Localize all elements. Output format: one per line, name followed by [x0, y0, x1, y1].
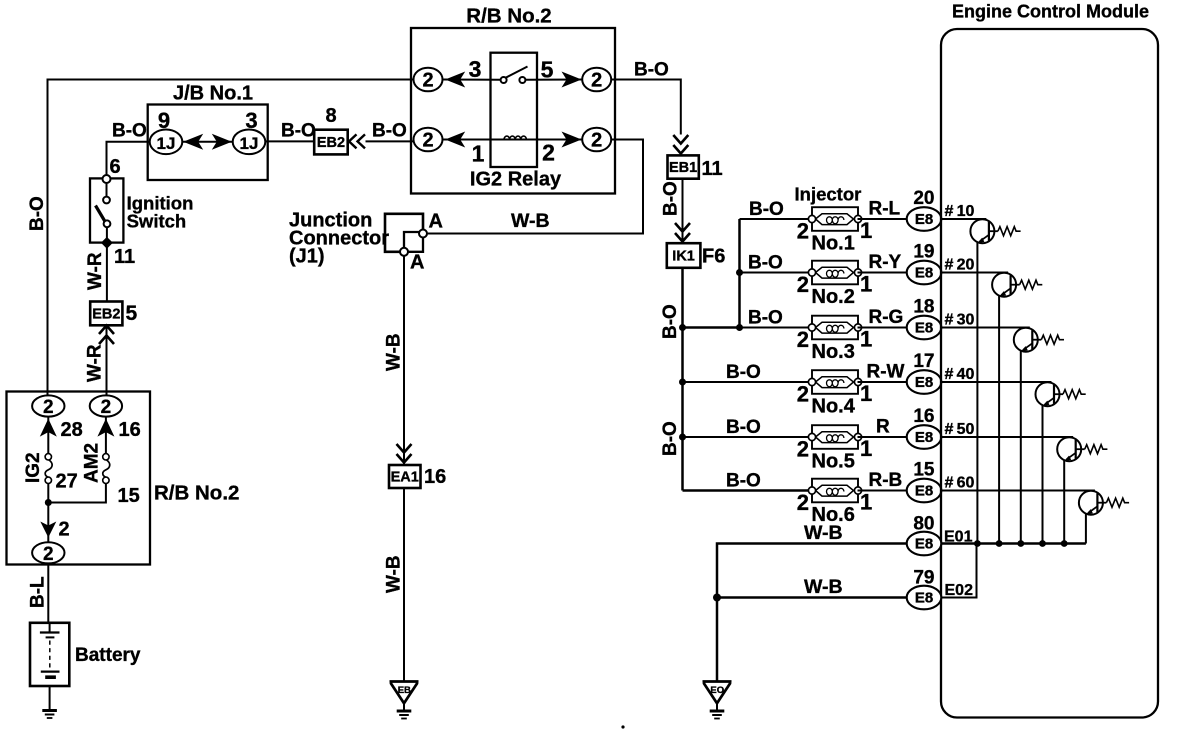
transistor Q6 — [1079, 491, 1129, 516]
svg-text:3: 3 — [469, 56, 482, 82]
svg-text:11: 11 — [114, 246, 135, 268]
arrow chevrons down — [675, 223, 690, 242]
svg-text:2: 2 — [797, 272, 809, 297]
svg-text:15: 15 — [913, 460, 935, 481]
battery — [30, 623, 69, 686]
svg-text:2: 2 — [59, 519, 70, 541]
svg-text:28: 28 — [61, 419, 83, 441]
node dot Q2 — [996, 540, 1003, 547]
node dot row4 main — [679, 379, 686, 386]
wire row6 B-O — [683, 489, 813, 492]
svg-text:R-G: R-G — [869, 307, 904, 328]
node dot Q4 — [1039, 540, 1046, 547]
svg-text:B-O: B-O — [726, 471, 761, 492]
svg-text:EA1: EA1 — [391, 470, 419, 486]
svg-text:2: 2 — [101, 397, 112, 418]
svg-text:Battery: Battery — [75, 645, 141, 666]
svg-text:2: 2 — [43, 544, 54, 565]
node dot Q1/E02 — [974, 540, 981, 547]
wire Q1 collector — [976, 242, 978, 544]
transistor Q5 — [1057, 437, 1107, 462]
svg-text:R-W: R-W — [867, 362, 905, 383]
wire B-L from R/B No.2 to battery — [47, 563, 49, 623]
wire row3 B-O — [740, 327, 813, 329]
svg-text:B-O: B-O — [660, 421, 681, 456]
svg-text:17: 17 — [913, 351, 934, 372]
ground point EO — [703, 682, 732, 719]
wire pin3 to contact — [443, 79, 502, 81]
connector 2 (pin 28) — [32, 395, 64, 416]
connector E8 pin 79 — [907, 586, 942, 610]
svg-text:E02: E02 — [945, 582, 974, 599]
svg-text:B-O: B-O — [726, 417, 761, 438]
arrow left (pin 3) — [445, 72, 465, 88]
wire B-O main feed (top left) — [48, 80, 414, 396]
injector No.6 — [808, 479, 861, 503]
wire Q4 collector — [1042, 405, 1044, 544]
wire fuse AM2 to node — [48, 484, 106, 503]
svg-text:R-B: R-B — [869, 470, 903, 491]
svg-text:# 40: # 40 — [945, 366, 975, 383]
wire J/B No.1 to ignition switch — [107, 142, 151, 176]
svg-text:27: 27 — [56, 471, 78, 493]
svg-text:W-R: W-R — [85, 252, 106, 290]
connector E8 pin 19 — [907, 261, 942, 285]
ground point EB — [390, 682, 419, 719]
svg-text:11: 11 — [702, 158, 723, 180]
svg-text:15: 15 — [118, 485, 140, 507]
svg-text:IG2 Relay: IG2 Relay — [470, 169, 562, 191]
svg-text:EB1: EB1 — [669, 160, 697, 176]
connector 2 (relay pin 2) — [582, 128, 611, 152]
arrow down (pin 2) — [40, 522, 56, 538]
connector E8 pin 18 — [907, 316, 942, 340]
wire Q5 collector — [1063, 460, 1065, 544]
node dot row2 branch — [736, 269, 743, 276]
wire W-B relay pin2 to junction connector — [428, 140, 644, 234]
svg-text:2: 2 — [422, 70, 433, 92]
wire row6 R-B — [858, 490, 907, 492]
wire battery to ground — [49, 686, 51, 710]
svg-text:2: 2 — [797, 327, 809, 352]
svg-text:1: 1 — [860, 272, 872, 297]
svg-text:A: A — [410, 252, 424, 274]
svg-text:W-B: W-B — [511, 210, 550, 232]
svg-text:Injector: Injector — [795, 184, 862, 205]
svg-text:2: 2 — [422, 130, 433, 152]
wire between 1J connectors — [183, 141, 233, 143]
connector 2 (relay pin 3) — [414, 68, 443, 92]
junction connector J1 — [385, 214, 423, 252]
svg-text:2: 2 — [542, 140, 555, 166]
connector 1J (pin 9) — [150, 130, 183, 155]
junction code EA1 — [389, 465, 421, 488]
injector No.2 — [808, 261, 861, 285]
wire E01 ground bus — [941, 542, 1086, 544]
wire W-B junction connector to EA1 — [403, 256, 405, 465]
injector No.3 — [808, 316, 861, 340]
svg-text:EB: EB — [398, 685, 411, 696]
wire row5 R — [858, 436, 907, 438]
svg-text:No.2: No.2 — [812, 286, 855, 308]
svg-text:B-O: B-O — [372, 121, 407, 142]
svg-text:19: 19 — [913, 242, 934, 263]
transistor Q1 — [970, 219, 1020, 244]
arrow chevrons left — [349, 134, 365, 148]
transistor Q3 — [1014, 328, 1064, 353]
svg-text:1: 1 — [860, 327, 872, 352]
svg-text:# 10: # 10 — [945, 203, 975, 220]
svg-text:# 50: # 50 — [945, 421, 975, 438]
svg-text:1: 1 — [860, 436, 872, 461]
wire EA1 to ground — [403, 488, 405, 682]
svg-text:16: 16 — [913, 406, 934, 427]
svg-text:R-L: R-L — [869, 199, 901, 220]
svg-text:R/B No.2: R/B No.2 — [466, 5, 551, 28]
arrow up (pin 16) — [97, 419, 114, 437]
connector E8 pin 20 — [907, 207, 942, 231]
svg-text:1: 1 — [860, 218, 872, 243]
svg-text:# 60: # 60 — [945, 475, 975, 492]
svg-text:6: 6 — [110, 156, 121, 178]
svg-text:# 20: # 20 — [945, 257, 975, 274]
wire Q3 collector — [1020, 351, 1022, 544]
svg-text:R: R — [876, 417, 890, 438]
svg-text:E01: E01 — [944, 529, 973, 546]
svg-text:5: 5 — [126, 302, 138, 325]
svg-text:EB2: EB2 — [317, 135, 345, 151]
svg-text:IK1: IK1 — [672, 249, 695, 265]
ignition switch SW1 — [90, 178, 123, 242]
node dot row3 main — [679, 324, 686, 331]
svg-text:J/B No.1: J/B No.1 — [173, 83, 253, 105]
svg-text:W-B: W-B — [384, 555, 405, 593]
svg-text:AM2: AM2 — [82, 443, 103, 483]
svg-text:2: 2 — [591, 130, 602, 152]
wire row5 B-O — [683, 436, 813, 438]
wire branch vertical to rows 1-2 — [738, 219, 741, 328]
node dot row3 branch — [736, 324, 743, 331]
svg-text:IG2: IG2 — [23, 452, 44, 483]
wire fuse IG2 down — [47, 484, 49, 543]
connector 2 (pin 16) — [90, 395, 122, 416]
wire W-B E02 — [717, 596, 907, 599]
svg-text:A: A — [429, 211, 443, 233]
svg-text:1: 1 — [860, 381, 872, 406]
stray period mark — [621, 725, 624, 728]
injector No.1 — [808, 207, 861, 231]
fuse IG2 — [45, 454, 52, 484]
svg-text:5: 5 — [541, 57, 554, 83]
wire 1J to EB2 — [266, 140, 315, 142]
connector E8 pin 80 — [907, 532, 942, 556]
node dot Q3 — [1017, 540, 1024, 547]
svg-text:W-B: W-B — [384, 333, 405, 371]
connector E8 pin 15 — [907, 479, 942, 503]
svg-text:EO: EO — [710, 685, 724, 696]
connector 2 (relay pin 5) — [582, 68, 611, 92]
connector 2 (relay pin 1) — [414, 128, 443, 152]
svg-text:# 30: # 30 — [945, 312, 975, 329]
injector No.5 — [808, 425, 861, 449]
node dot E02 — [713, 594, 721, 602]
wire EB1 to K1 — [682, 179, 684, 242]
svg-text:2: 2 — [797, 437, 809, 462]
wire row2 B-O — [740, 272, 813, 274]
wire row4 R-W — [858, 381, 907, 383]
ground (battery) — [42, 711, 57, 719]
wire pin28 to fuse IG2 — [47, 417, 49, 455]
svg-text:2: 2 — [43, 397, 54, 418]
relay block R/B No.2 (lower) — [7, 392, 151, 565]
pin E02 link wire — [941, 544, 977, 598]
svg-text:B-O: B-O — [112, 121, 147, 142]
svg-text:F6: F6 — [702, 246, 725, 268]
node dot row5 main — [679, 434, 686, 441]
svg-text:2: 2 — [591, 70, 602, 92]
arrow chevrons down — [673, 135, 688, 154]
wire row4 B-O — [683, 381, 813, 383]
svg-text:79: 79 — [913, 568, 934, 589]
transistor Q4 — [1036, 382, 1086, 407]
arrow left (1J) — [183, 134, 203, 150]
connector E8 pin 16 — [907, 425, 942, 449]
svg-text:1J: 1J — [157, 134, 176, 153]
svg-text:Switch: Switch — [127, 211, 187, 232]
arrow chevrons down — [397, 444, 412, 463]
wire coil row — [443, 139, 583, 141]
junction code EB2 (5) — [90, 302, 122, 326]
svg-text:80: 80 — [913, 514, 934, 535]
svg-text:18: 18 — [913, 297, 934, 318]
wire W-B E01 — [717, 544, 907, 682]
svg-text:R/B No.2: R/B No.2 — [154, 482, 239, 505]
svg-text:2: 2 — [797, 219, 809, 244]
svg-text:W-R: W-R — [85, 344, 106, 382]
svg-text:(J1): (J1) — [289, 246, 325, 268]
svg-text:W-B: W-B — [804, 522, 843, 544]
svg-text:W-B: W-B — [804, 576, 843, 598]
svg-text:B-O: B-O — [660, 304, 681, 339]
arrow right (1J) — [212, 134, 232, 150]
svg-text:B-O: B-O — [661, 181, 682, 216]
svg-text:B-L: B-L — [28, 576, 49, 608]
svg-text:16: 16 — [424, 466, 446, 488]
wire EB2 to R/B No.2 — [106, 325, 108, 395]
arrow right (pin 2) — [562, 132, 582, 148]
svg-text:EB2: EB2 — [92, 306, 120, 322]
svg-text:1: 1 — [860, 490, 872, 515]
svg-text:No.5: No.5 — [812, 451, 855, 473]
wire Q2 collector — [998, 296, 1000, 544]
wire B-O relay to EB1 — [611, 80, 681, 135]
svg-text:B-O: B-O — [634, 60, 669, 81]
wire Q6 collector — [1085, 514, 1087, 544]
fuse code IK1 — [667, 243, 701, 268]
svg-text:No.3: No.3 — [812, 341, 855, 363]
svg-text:No.4: No.4 — [812, 396, 856, 418]
svg-text:B-O: B-O — [27, 196, 48, 231]
svg-text:Engine Control Module: Engine Control Module — [952, 2, 1149, 22]
svg-text:2: 2 — [797, 490, 809, 515]
wire row2 R-Y — [858, 272, 907, 274]
injector No.4 — [808, 370, 861, 394]
svg-text:No.1: No.1 — [812, 233, 855, 255]
arrow up (pin 28) — [40, 419, 57, 437]
svg-text:B-O: B-O — [749, 199, 784, 220]
svg-text:B-O: B-O — [726, 362, 761, 383]
Engine Control Module box — [941, 29, 1158, 718]
wire B-O main distribution — [681, 268, 684, 491]
connector 2 (bottom) — [32, 542, 64, 563]
wire row3 R-G — [858, 327, 907, 329]
wire branch row3 — [683, 326, 740, 329]
wire contact to pin5 — [525, 79, 582, 81]
fuse AM2 — [103, 454, 110, 484]
relay switch contacts — [501, 77, 507, 83]
svg-text:B-O: B-O — [748, 308, 783, 329]
svg-text:16: 16 — [119, 419, 141, 441]
svg-text:2: 2 — [797, 382, 809, 407]
arrow chevrons up — [99, 326, 114, 345]
wire W-R switch to EB2 — [106, 247, 108, 302]
wire row1 B-O — [740, 218, 813, 220]
transistor Q2 — [992, 273, 1042, 298]
svg-text:20: 20 — [913, 188, 934, 209]
svg-text:B-O: B-O — [281, 121, 316, 142]
connector E8 pin 17 — [907, 370, 942, 394]
arrow left (pin 1) — [445, 132, 465, 148]
svg-text:8: 8 — [325, 105, 336, 127]
wire EB2 to R/B No.2 — [366, 140, 414, 142]
svg-text:R-Y: R-Y — [869, 252, 902, 273]
connector 1J (pin 3) — [233, 130, 266, 155]
svg-text:1J: 1J — [240, 134, 259, 153]
svg-text:B-O: B-O — [748, 253, 783, 274]
svg-text:1: 1 — [472, 141, 485, 167]
wire row1 R-L — [858, 218, 907, 220]
arrow right (pin 5) — [562, 72, 582, 88]
node dot Q5 — [1061, 540, 1068, 547]
node junction dot — [45, 499, 52, 506]
IG2 relay box — [491, 53, 538, 167]
junction code EB2 (8) — [314, 130, 348, 155]
relay coil — [504, 136, 526, 139]
junction block J/B No.1 — [148, 105, 268, 181]
junction code EB1 — [668, 155, 699, 178]
relay block R/B No.2 (upper) — [411, 28, 615, 194]
wire pin16 to fuse AM2 — [105, 417, 107, 455]
